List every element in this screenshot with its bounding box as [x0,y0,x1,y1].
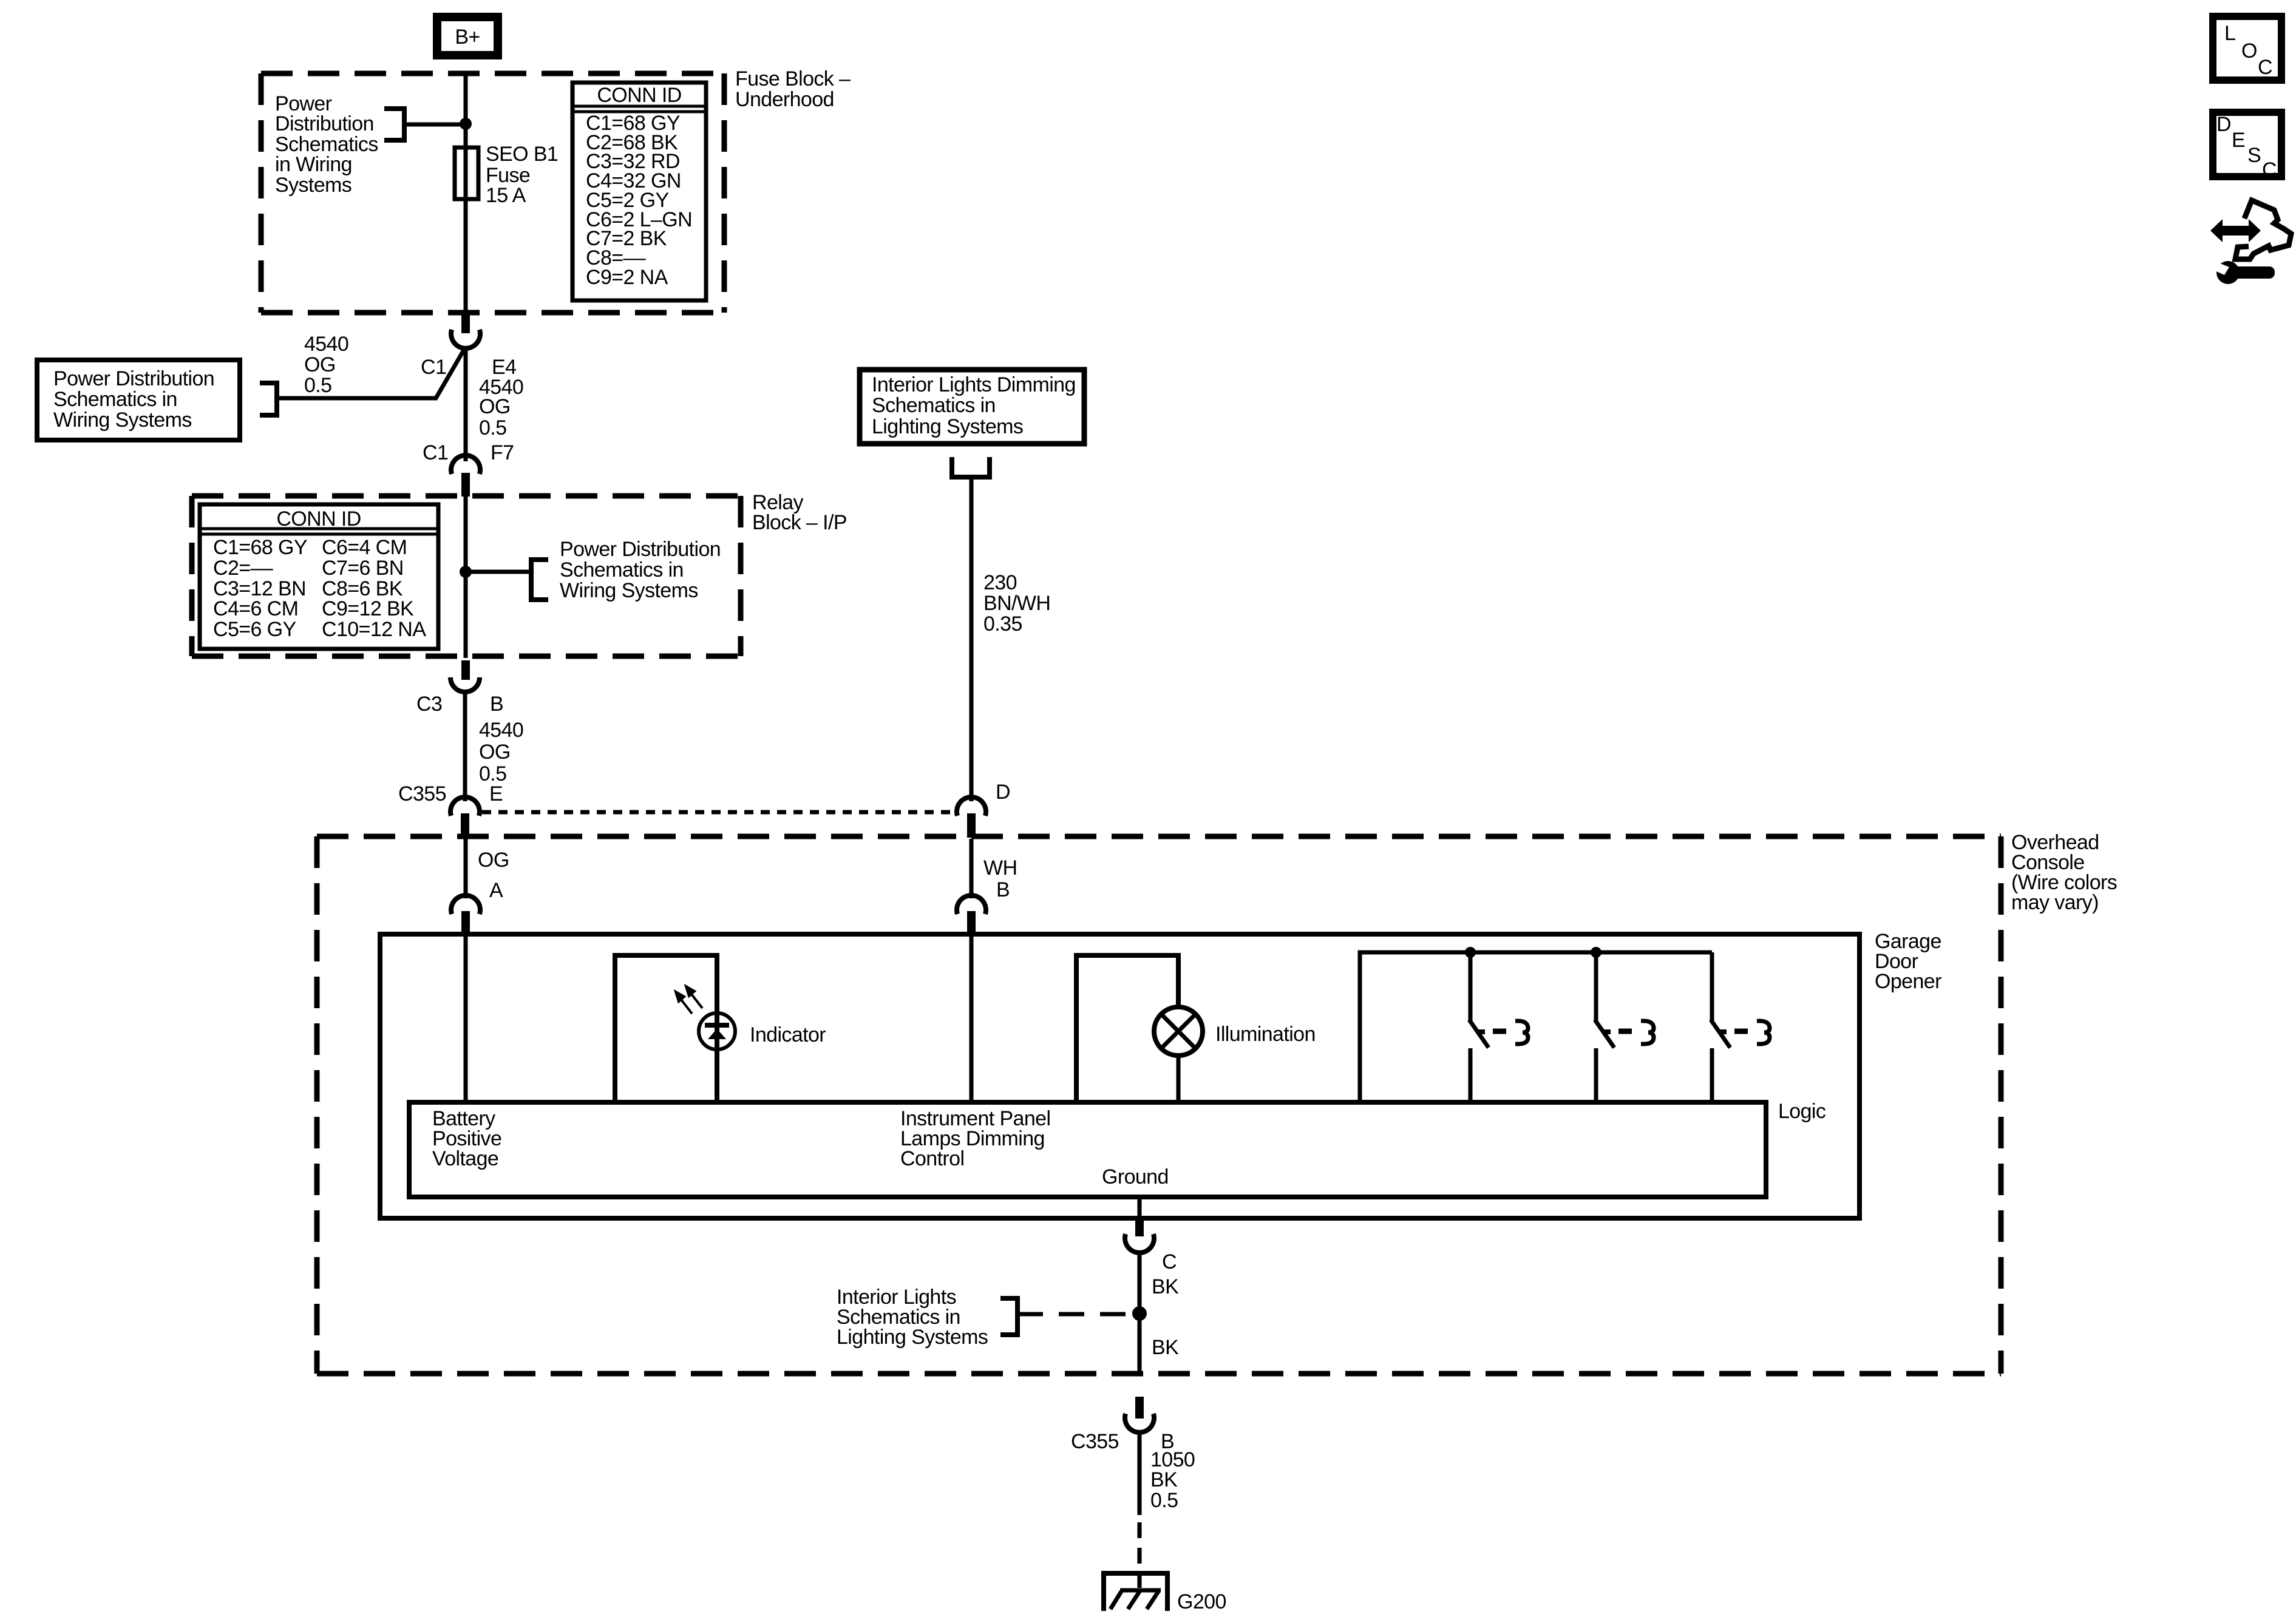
svg-text:BN/WH: BN/WH [983,592,1050,615]
connector C1 / E4 socket arc [451,330,480,348]
bracket for note [384,109,404,140]
ground symbol G200 [1101,1573,1170,1611]
svg-text:Systems: Systems [275,174,352,197]
wire dimming to connector D [970,477,974,801]
DESC icon box [2213,112,2281,181]
svg-text:Power Distribution: Power Distribution [53,367,214,390]
lamp wire to logic [1177,1057,1181,1102]
connector A pin [461,911,470,935]
Garage Door Opener label [1875,930,1941,993]
connector C355 / E pin [461,813,469,838]
svg-text:Ground: Ground [1102,1165,1169,1188]
svg-text:OG: OG [304,353,336,376]
svg-text:Lighting Systems: Lighting Systems [872,415,1023,438]
svg-text:O: O [2241,39,2257,63]
junction node switch 1 [1465,947,1476,958]
svg-text:Wiring Systems: Wiring Systems [560,579,698,602]
svg-text:4540: 4540 [479,719,523,742]
svg-text:B: B [490,693,503,716]
svg-text:Lighting Systems: Lighting Systems [837,1326,988,1349]
Interior Lights Dimming Schematics box [860,370,1084,444]
wire label 4540 OG 0.5 (left of C1) [304,333,348,397]
switch SW2 [1595,952,1654,1102]
svg-text:Logic: Logic [1778,1100,1826,1123]
svg-text:CONN ID: CONN ID [597,84,681,107]
LED anode triangle [708,1029,726,1039]
Logic box [409,1102,1766,1197]
label Instrument Panel Lamps Dimming Control [900,1107,1050,1170]
wire junction to bracket [466,570,531,574]
branch wire diagonal to power distribution [277,349,464,398]
svg-text:C4=6 CM: C4=6 CM [213,597,298,620]
connector C355 / B socket arc (bottom) [1125,1414,1154,1432]
wire C3 to C355 [463,694,467,801]
svg-text:G200: G200 [1177,1590,1226,1613]
Garage Door Opener box [380,934,1860,1218]
svg-text:OG: OG [478,849,509,872]
connector A socket arc [451,895,480,914]
switch SW1 [1469,952,1528,1102]
svg-text:C1: C1 [423,441,448,464]
svg-text:Wiring Systems: Wiring Systems [53,408,192,432]
svg-text:0.5: 0.5 [1150,1489,1178,1512]
C355 connector dotted line [482,810,958,815]
svg-text:BK: BK [1150,1468,1178,1491]
connector B pin [967,911,976,935]
bracket for relay note [531,560,548,600]
CONN ID table (fuse block) [572,83,706,300]
ground wire out of logic [1138,1197,1142,1220]
svg-text:BK: BK [1152,1275,1179,1298]
connector C355 / D socket arc [957,797,986,816]
svg-text:SEO B1: SEO B1 [486,143,558,166]
label Battery Positive Voltage [432,1107,501,1170]
LOC icon box [2213,16,2281,80]
svg-text:B: B [996,878,1010,901]
svg-text:Control: Control [900,1147,964,1170]
bracket below dimming box [952,457,990,477]
svg-text:B+: B+ [455,25,480,49]
svg-text:D: D [996,781,1010,804]
wire OG into console [464,839,468,898]
svg-text:C: C [2262,158,2277,181]
Relay Block - I/P dashed box [192,496,741,656]
dashed wire to G200 [1138,1522,1142,1573]
svg-text:Fuse Block –: Fuse Block – [735,67,851,90]
wire label 1050 BK 0.5 [1150,1448,1195,1512]
svg-text:0.5: 0.5 [304,374,331,397]
wire C to junction [1138,1250,1142,1375]
svg-text:C7=6 BN: C7=6 BN [322,557,404,580]
Relay Block - I/P label [752,491,847,534]
wire instrument panel dimming [970,934,974,1102]
svg-text:0.35: 0.35 [983,612,1022,636]
note: Power Distribution Schematics in Wiring Systems (relay) [560,538,721,602]
connector C1 / F7 socket arc [451,455,480,474]
fuse value label [486,143,558,207]
svg-text:in Wiring: in Wiring [275,153,352,176]
svg-text:WH: WH [983,856,1017,880]
svg-text:D: D [2216,113,2231,136]
svg-text:CONN ID: CONN ID [276,507,361,531]
svg-text:C: C [2258,56,2272,79]
connector C1 / E4 pin [461,310,470,333]
svg-text:E: E [2232,129,2245,152]
svg-text:15 A: 15 A [486,184,526,207]
B+ terminal box [437,17,498,55]
wire WH into console [970,839,974,898]
Fuse Block - Underhood label [735,67,851,111]
indicator branch loop [615,955,717,1102]
wire B+ down through fuse [464,72,468,310]
svg-text:Schematics in: Schematics in [560,558,684,581]
svg-text:C355: C355 [398,782,446,805]
wire to ground [1138,1431,1142,1515]
svg-text:4540: 4540 [304,333,348,356]
wire label 4540 OG 0.5 (E4-F7) [479,376,523,439]
connector B socket arc [957,895,986,914]
connector C3 / B socket arc [450,677,480,692]
svg-text:E: E [489,782,503,805]
switch SW3 [1711,952,1770,1102]
wire label 4540 OG 0.5 (C3-C355) [479,719,523,785]
svg-text:A: A [489,879,503,902]
Overhead Console label [2011,831,2117,914]
wire label 230 BN/WH 0.35 [983,571,1050,636]
svg-text:C9=2 NA: C9=2 NA [586,266,668,289]
junction node (relay) [460,566,472,578]
svg-text:C9=12 BK: C9=12 BK [322,597,414,620]
svg-text:230: 230 [983,571,1017,594]
note: Power Distribution Schematics in Wiring Systems (fuse block) [275,92,378,197]
hand with arrow and wrench icon [2210,200,2291,284]
svg-text:C: C [1162,1250,1177,1273]
wire battery positive [464,934,468,1102]
svg-text:BK: BK [1152,1336,1179,1359]
junction node [460,118,472,130]
wire through relay block [464,497,468,658]
connector C355 / D pin [967,813,976,838]
svg-text:S: S [2247,144,2261,167]
svg-text:Block – I/P: Block – I/P [752,511,847,534]
CONN ID table (relay block) [200,504,438,649]
svg-text:OG: OG [479,741,511,764]
svg-text:F7: F7 [491,441,514,464]
svg-text:Opener: Opener [1875,970,1941,993]
junction node switch 2 [1591,947,1601,958]
svg-text:C1=68 GY: C1=68 GY [213,536,307,559]
dashed wire bracket to junction [1017,1312,1133,1317]
wire E4 to F7 [464,346,468,461]
junction node (interior lights) [1132,1306,1147,1321]
LED cathode bar [705,1023,729,1028]
connector C pin [1135,1218,1144,1236]
illumination lamp [1154,1007,1203,1056]
svg-text:OG: OG [479,395,511,418]
Fuse Block - Underhood dashed box [261,73,724,313]
switch bus wire [1360,952,1712,1102]
svg-text:C2=––: C2=–– [213,557,273,580]
LED indicator circle [699,1013,735,1049]
svg-text:Illumination: Illumination [1215,1023,1316,1046]
svg-text:Voltage: Voltage [432,1147,498,1170]
Overhead Console dashed box [317,836,2001,1374]
bracket for power distribution box [260,383,277,415]
svg-text:C10=12 NA: C10=12 NA [322,618,426,641]
connector C3 / B pin [461,660,470,680]
wire bracket to junction [404,123,466,127]
LED emission arrows [676,986,702,1014]
fuse SEO B1 15A [455,147,478,199]
note: Interior Lights Schematics in Lighting Systems [837,1286,988,1349]
svg-text:C355: C355 [1071,1430,1119,1453]
connector C355 / E socket arc [450,797,480,816]
connector C1 / F7 pin [461,473,470,497]
svg-text:C3: C3 [416,693,442,716]
svg-text:L: L [2224,22,2235,45]
connector C355 / B pin (bottom) [1135,1397,1144,1419]
svg-text:C6=4 CM: C6=4 CM [322,536,407,559]
bracket for interior lights note [1000,1298,1017,1335]
svg-text:Power Distribution: Power Distribution [560,538,721,561]
svg-text:C1: C1 [421,356,446,379]
svg-text:Interior Lights Dimming: Interior Lights Dimming [872,373,1076,396]
Power Distribution Schematics in Wiring Systems box (left) [37,360,240,440]
illumination branch loop [1076,955,1178,1102]
svg-text:Schematics in: Schematics in [53,388,177,411]
svg-text:Distribution: Distribution [275,112,374,135]
svg-text:Schematics in: Schematics in [872,394,996,417]
svg-text:Underhood: Underhood [735,88,834,111]
connector C socket arc [1125,1234,1154,1253]
svg-text:0.5: 0.5 [479,416,506,439]
svg-text:may vary): may vary) [2011,891,2099,914]
svg-text:Indicator: Indicator [750,1023,826,1046]
svg-text:C5=6 GY: C5=6 GY [213,618,296,641]
